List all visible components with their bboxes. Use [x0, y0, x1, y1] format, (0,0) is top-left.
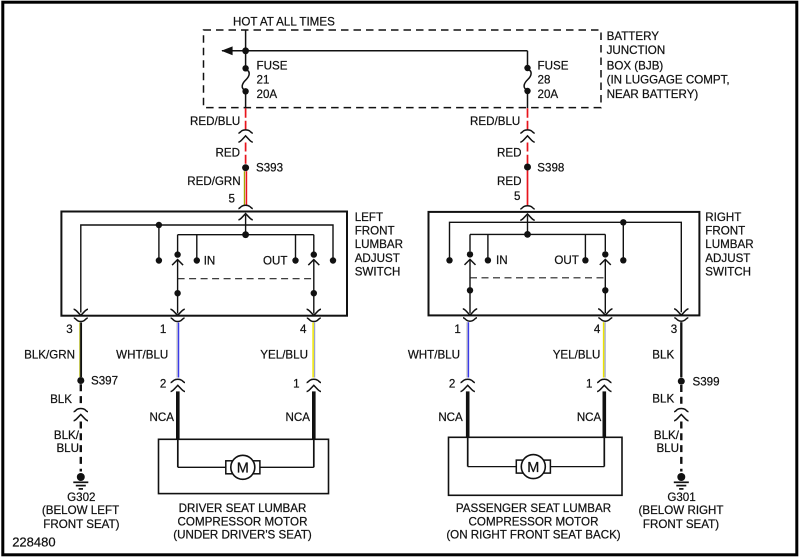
wiper IN (pin 1)	[172, 235, 183, 314]
contact dot IN	[194, 257, 200, 263]
svg-text:FRONT: FRONT	[355, 225, 395, 238]
right front lumbar adjust switch body	[429, 212, 700, 316]
label FUSE 28 20A	[538, 60, 569, 102]
svg-text:S397: S397	[91, 375, 118, 388]
wire NCA left 1 (thick)	[176, 391, 180, 439]
wire BLK right (solid)	[680, 322, 682, 377]
wire: contact drop from upper bus	[158, 225, 160, 258]
svg-text:WHT/BLU: WHT/BLU	[408, 349, 460, 362]
svg-text:HOT AT ALL TIMES: HOT AT ALL TIMES	[233, 15, 335, 28]
wire: contact drop OUT side	[295, 235, 297, 258]
svg-text:FRONT SEAT): FRONT SEAT)	[43, 518, 119, 531]
svg-text:BLK: BLK	[652, 393, 674, 406]
svg-text:S393: S393	[256, 162, 283, 175]
svg-text:DRIVER SEAT LUMBAR: DRIVER SEAT LUMBAR	[179, 502, 307, 515]
wire: upper bus right box (to pin 3)	[450, 222, 682, 312]
wire BLK/BLU dashed to ground	[80, 422, 82, 472]
wire: contact drop IN side right	[487, 234, 489, 257]
svg-text:M: M	[527, 460, 539, 476]
svg-text:1: 1	[160, 323, 166, 336]
connector (motor pin 2 right)	[461, 379, 475, 382]
node on upper bus right	[620, 219, 626, 225]
svg-text:YEL/BLU: YEL/BLU	[260, 349, 308, 362]
motor M2 (passenger seat)	[516, 455, 550, 479]
svg-text:(BELOW LEFT: (BELOW LEFT	[42, 504, 119, 517]
contact dot OUT right	[582, 257, 588, 263]
svg-text:PASSENGER SEAT LUMBAR: PASSENGER SEAT LUMBAR	[456, 502, 611, 515]
splice S397	[77, 377, 84, 384]
wire: contact drop from upper bus right	[622, 222, 624, 257]
left front lumbar adjust switch body	[61, 212, 347, 316]
label LEFT FRONT LUMBAR ADJUST SWITCH	[355, 211, 403, 279]
label BLK/BLU left	[54, 429, 80, 455]
svg-text:5: 5	[229, 192, 235, 205]
svg-text:BLU: BLU	[656, 442, 679, 455]
pin labels left switch	[66, 323, 307, 336]
fuse 28 20A	[524, 65, 531, 94]
exit cup pin 4 right	[598, 318, 612, 322]
svg-text:(UNDER DRIVER'S SEAT): (UNDER DRIVER'S SEAT)	[173, 529, 312, 542]
contact dot	[620, 257, 626, 263]
exit arrow pin 4	[307, 309, 321, 315]
wiper OUT (pin 4)	[308, 235, 319, 314]
svg-text:RIGHT: RIGHT	[705, 211, 741, 224]
wire RED/GRN (red with green tracer)	[244, 171, 246, 205]
svg-text:S399: S399	[693, 375, 720, 388]
wire WHT/BLU left	[177, 323, 179, 378]
exit cup pin 3 right	[674, 318, 688, 322]
svg-text:21: 21	[257, 74, 270, 87]
wire RED left (dashed red)	[245, 143, 247, 165]
driver seat lumbar compressor motor box	[159, 439, 329, 493]
connector (ground lead right)	[674, 409, 688, 412]
wire: contact drop IN side	[196, 235, 198, 258]
connector (motor pin 1 right)	[597, 379, 611, 382]
svg-text:WHT/BLU: WHT/BLU	[116, 349, 168, 362]
svg-text:BLK: BLK	[652, 349, 674, 362]
svg-text:LUMBAR: LUMBAR	[705, 238, 753, 251]
exit cup pin 3	[74, 318, 88, 322]
svg-text:20A: 20A	[257, 88, 278, 101]
svg-text:4: 4	[300, 323, 307, 336]
svg-text:3: 3	[66, 323, 72, 336]
svg-text:28: 28	[538, 74, 551, 87]
svg-text:4: 4	[594, 323, 601, 336]
svg-text:BLU: BLU	[56, 442, 79, 455]
wire BLK/GRN	[80, 323, 81, 378]
svg-text:NCA: NCA	[577, 411, 602, 424]
svg-text:1: 1	[586, 377, 592, 390]
wiper IN right (pin 1)	[465, 234, 476, 313]
svg-text:3: 3	[671, 323, 677, 336]
svg-text:JUNCTION: JUNCTION	[607, 44, 666, 57]
node on upper bus	[156, 222, 162, 228]
svg-text:BATTERY: BATTERY	[607, 30, 660, 43]
svg-text:2: 2	[449, 377, 455, 390]
svg-text:IN: IN	[204, 255, 216, 268]
exit arrow pin 3	[74, 309, 88, 315]
svg-text:FRONT SEAT): FRONT SEAT)	[643, 518, 719, 531]
svg-text:BLK/: BLK/	[654, 429, 680, 442]
wire BLK/BLU dashed to ground right	[680, 422, 682, 472]
wire: hot feed vertical from top	[245, 30, 247, 69]
svg-text:S398: S398	[537, 161, 564, 174]
svg-text:NCA: NCA	[150, 411, 175, 424]
svg-text:RED/GRN: RED/GRN	[187, 175, 240, 188]
mechanical linkage (dashed)	[178, 278, 314, 280]
pin labels right switch	[454, 323, 677, 336]
wire NCA right 1 (thick)	[466, 391, 470, 437]
svg-text:NCA: NCA	[286, 411, 311, 424]
motor internal wiring right	[468, 437, 605, 466]
svg-text:5: 5	[514, 190, 520, 203]
motor internal wiring left	[178, 439, 314, 467]
svg-text:OUT: OUT	[554, 254, 578, 267]
contact dot OUT	[292, 257, 298, 263]
wire YEL/BLU right	[604, 322, 606, 377]
exit arrow pin 1 right	[463, 309, 477, 315]
exit arrow pin 1	[170, 309, 184, 315]
svg-text:G301: G301	[667, 491, 695, 504]
svg-text:ADJUST: ADJUST	[705, 252, 750, 265]
wire RED/BLU left (dashed red)	[245, 108, 247, 130]
svg-text:1: 1	[293, 377, 299, 390]
wire RED right upper (dashed red)	[527, 143, 529, 164]
wire: lower bus (power)	[178, 234, 314, 236]
svg-text:BLK: BLK	[50, 393, 72, 406]
wire: fuse 21 to box edge	[245, 92, 247, 109]
connector C (right feed)	[520, 130, 534, 133]
wire WHT/BLU right	[467, 322, 469, 377]
svg-text:(BELOW RIGHT: (BELOW RIGHT	[638, 504, 723, 517]
contact dot (upper bus left end)	[446, 257, 452, 263]
label G302	[42, 491, 120, 531]
svg-text:FUSE: FUSE	[257, 60, 288, 73]
wire: pin5 internal drop	[245, 215, 247, 235]
wire: feed drop to fuse 28	[527, 51, 529, 68]
svg-text:NEAR BATTERY): NEAR BATTERY)	[607, 88, 699, 101]
node: pin5 junction	[242, 231, 249, 238]
exit cup pin 4	[307, 318, 321, 322]
svg-text:RED/BLU: RED/BLU	[190, 115, 240, 128]
svg-text:SWITCH: SWITCH	[705, 266, 751, 279]
svg-text:OUT: OUT	[263, 255, 287, 268]
svg-text:2: 2	[160, 377, 166, 390]
svg-text:G302: G302	[67, 491, 95, 504]
wire RED right lower (solid red)	[527, 171, 529, 207]
connector (ground lead left)	[74, 409, 88, 412]
svg-text:1: 1	[454, 323, 460, 336]
svg-text:FRONT: FRONT	[705, 225, 745, 238]
contact dot (upper bus right)	[330, 257, 336, 263]
splice S398	[524, 164, 531, 171]
svg-text:RED: RED	[497, 146, 521, 159]
label passenger seat motor	[446, 502, 620, 541]
exit arrow pin 3 right	[674, 309, 688, 315]
label FUSE 21 20A	[257, 60, 288, 102]
wire: pin5 internal drop right	[527, 215, 529, 234]
ground G302	[73, 473, 88, 489]
label BLK/BLU right	[654, 429, 680, 455]
wire: fuse 28 to box edge	[527, 91, 529, 108]
connector (motor pin 2)	[171, 379, 185, 382]
svg-text:FUSE: FUSE	[538, 60, 569, 73]
label G301	[638, 491, 723, 531]
svg-text:BLK/GRN: BLK/GRN	[24, 349, 75, 362]
wire: contact drop OUT side right	[584, 234, 586, 257]
svg-text:RED: RED	[216, 146, 240, 159]
svg-text:IN: IN	[496, 254, 508, 267]
svg-text:COMPRESSOR MOTOR: COMPRESSOR MOTOR	[469, 515, 599, 528]
svg-text:RED: RED	[497, 175, 521, 188]
splice S393	[242, 164, 249, 171]
svg-text:M: M	[237, 461, 249, 477]
contact dot IN right	[485, 257, 491, 263]
svg-text:LEFT: LEFT	[355, 211, 383, 224]
svg-text:COMPRESSOR MOTOR: COMPRESSOR MOTOR	[178, 515, 308, 528]
svg-text:SWITCH: SWITCH	[355, 266, 401, 279]
wire NCA right 2 (thick)	[602, 391, 606, 437]
svg-text:LUMBAR: LUMBAR	[355, 238, 403, 251]
svg-text:(IN LUGGAGE COMPT,: (IN LUGGAGE COMPT,	[607, 74, 730, 87]
svg-text:20A: 20A	[538, 88, 559, 101]
wire BLK dashed to connector	[80, 384, 82, 407]
svg-text:RED/BLU: RED/BLU	[470, 115, 520, 128]
wire RED/BLU right (dashed red)	[527, 108, 529, 130]
label driver seat motor	[173, 502, 312, 541]
wire: lower bus right box	[470, 233, 605, 235]
wire BLK dashed to connector right	[680, 385, 682, 407]
exit arrow pin 4 right	[598, 309, 612, 315]
wire: hot feed horizontal bus	[222, 50, 528, 52]
wire: upper bus (to pin 3)	[81, 225, 333, 313]
wire NCA left 2 (thick)	[312, 391, 316, 439]
wiper OUT right (pin 4)	[600, 234, 611, 313]
svg-text:BOX (BJB): BOX (BJB)	[607, 60, 664, 73]
connector C (left feed)	[238, 130, 252, 133]
motor M1 (driver seat)	[226, 455, 260, 479]
fuse 21 20A	[242, 65, 249, 94]
splice S399	[678, 378, 685, 385]
connector: pin 5 entry right switch	[520, 206, 534, 209]
label BATTERY JUNCTION BOX (BJB)	[607, 30, 730, 101]
contact dot	[156, 257, 162, 263]
battery junction box (BJB) dashed enclosure	[204, 30, 602, 108]
node: pin5 junction right	[524, 231, 531, 238]
exit cup pin 1	[171, 318, 185, 322]
svg-text:ADJUST: ADJUST	[355, 252, 400, 265]
ground G301	[674, 473, 689, 489]
wire YEL/BLU left	[313, 323, 315, 378]
node: junction of feed	[242, 47, 249, 54]
mechanical linkage right (dashed)	[470, 277, 605, 279]
svg-text:NCA: NCA	[438, 411, 463, 424]
exit cup pin 1 right	[463, 318, 477, 322]
connector (motor pin 1)	[307, 379, 321, 382]
svg-text:(ON RIGHT FRONT SEAT BACK): (ON RIGHT FRONT SEAT BACK)	[446, 529, 620, 542]
arrow to other circuits (left)	[221, 46, 232, 55]
svg-text:228480: 228480	[12, 535, 55, 550]
label RIGHT FRONT LUMBAR ADJUST SWITCH	[705, 211, 753, 279]
connector: pin 5 entry left switch	[238, 205, 252, 208]
passenger seat lumbar compressor motor box	[449, 437, 623, 495]
svg-text:YEL/BLU: YEL/BLU	[553, 349, 601, 362]
svg-text:BLK/: BLK/	[54, 429, 80, 442]
